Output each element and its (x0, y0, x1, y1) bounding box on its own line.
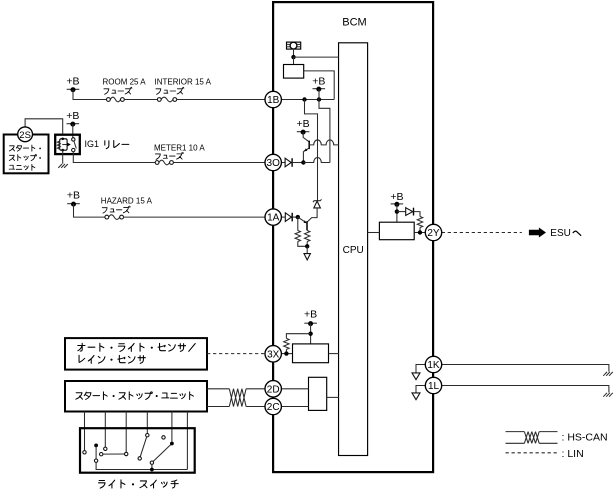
wire w2 (104, 412, 106, 448)
switch S1 lever (closed) (95, 447, 97, 459)
wire driver box to terminal 2Y (414, 232, 425, 234)
driver box (sounder) (284, 65, 304, 79)
wire fuse HAZARD to terminal 1A (124, 216, 266, 218)
wire junction to driver box (293, 57, 295, 64)
resistor R1 (1A pull-down) (297, 217, 299, 230)
wire w5 (171, 412, 173, 442)
svg-text:CPU: CPU (343, 245, 364, 256)
node junction (2Y +B net) (395, 209, 399, 213)
off-page triangle (1A sense) (304, 254, 310, 260)
interface box (3X) (293, 344, 329, 363)
svg-text:METER1 10 A: METER1 10 A (154, 144, 205, 153)
node pivot (switch S4) (170, 442, 174, 446)
svg-text:INTERIOR 15 A: INTERIOR 15 A (155, 78, 212, 87)
contact (S1) (94, 459, 97, 462)
node junction (resistor join) (305, 244, 309, 248)
switch S3 lever (140, 437, 147, 457)
diode D4 (2Y pull-up) (397, 208, 420, 217)
diode D2 (1A input) (281, 213, 297, 222)
wire relay coil to ground (62, 150, 64, 164)
HS-CAN wire 2C (start-stop to BCM) (207, 406, 229, 408)
wire +B to driver box top (396, 204, 398, 222)
shield ground (1L) (603, 393, 613, 397)
wire +B to junction (310, 323, 312, 344)
svg-text:: LIN: : LIN (562, 448, 584, 460)
node junction A (1B net) (302, 97, 306, 101)
node junction (common rail) (150, 468, 154, 472)
start-stop unit text (76, 392, 194, 400)
wire interface box to CPU (329, 353, 339, 355)
start-stop unit box (left) (4, 135, 49, 174)
wire terminal 1B to corner (281, 99, 334, 101)
fuse ROOM 25 A (110, 97, 120, 102)
auto light sensor box (65, 338, 207, 370)
contact (w2 end) (104, 447, 107, 450)
wire 1L to CAN bus right (442, 386, 609, 393)
contact (w1 end) (83, 451, 86, 454)
terminal 3O (265, 154, 281, 170)
transistor Q1 (303, 132, 309, 163)
node pivot (switch S1) (94, 444, 98, 448)
off-page triangle (1K) (412, 373, 420, 380)
twisted pair symbol (HS-CAN) (229, 389, 246, 407)
wire w4 (146, 412, 148, 434)
wire 1K stub to off-page (416, 365, 425, 373)
transistor Q2 (298, 217, 307, 230)
wire fuse METER1 to terminal 3O (173, 162, 265, 164)
wire w3 (125, 412, 127, 453)
svg-text:HAZARD 15 A: HAZARD 15 A (101, 197, 153, 206)
node junction (2Y net) (418, 230, 422, 234)
start-stop unit text (9, 145, 41, 151)
sounder icon (inside BCM top) (287, 42, 301, 49)
node junction (3X net) (284, 351, 288, 355)
contact (w3 end) (125, 452, 128, 455)
wire fuse ROOM to fuse INTERIOR (124, 99, 157, 101)
svg-text:2C: 2C (267, 402, 280, 413)
off-page arrow to ESU (529, 228, 546, 238)
wire CAN box to CPU (327, 396, 339, 398)
svg-text:1K: 1K (427, 360, 440, 371)
wire driver box to 1B net (304, 71, 335, 100)
svg-text:+B: +B (297, 118, 310, 130)
svg-text:ROOM 25 A: ROOM 25 A (103, 78, 147, 87)
wire +B to relay contact (72, 124, 74, 138)
contact (spare) (162, 436, 165, 439)
wire junction B down to 3O net (319, 100, 330, 163)
wire junction A down to zener (305, 100, 318, 201)
wire +B to fuse HAZARD (74, 204, 105, 217)
legend LIN symbol (506, 452, 558, 454)
svg-text:2S: 2S (19, 130, 31, 141)
wire S1 to common rail (96, 463, 187, 470)
svg-text:ESU: ESU (550, 228, 571, 239)
svg-text:+B: +B (66, 110, 79, 122)
svg-text:3X: 3X (267, 349, 280, 360)
contact (S2 left) (100, 453, 103, 456)
terminal 2S (18, 127, 33, 142)
wire 2C to CAN box (281, 406, 308, 408)
node junction (sounder net) (291, 55, 295, 59)
resistor R2 (Q2 emitter) (306, 229, 308, 231)
terminal 1A (265, 209, 281, 225)
contact (w4 end / S3 pivot) (146, 434, 149, 437)
wire CPU to driver box (368, 232, 380, 234)
terminal 2D (265, 381, 281, 397)
terminal 1B (265, 91, 281, 107)
fuse METER1 10 A (159, 160, 170, 165)
wire twist to terminal 2D (246, 388, 265, 390)
wire sounder to junction (293, 49, 295, 57)
driver box (2Y output) (379, 222, 414, 240)
wire junction to off-page arrow (306, 246, 308, 253)
relay IG1 box (55, 135, 80, 154)
node junction (3X +B) (308, 332, 312, 336)
svg-text:+B: +B (67, 190, 80, 202)
svg-text:2Y: 2Y (427, 228, 440, 239)
zener diode D3 (307, 199, 321, 222)
node junction (1A net) (296, 215, 300, 219)
terminal 2Y (425, 224, 441, 240)
auto light sensor text line2 (79, 355, 145, 363)
svg-text:+B: +B (312, 76, 325, 88)
svg-text:IG1: IG1 (85, 139, 100, 149)
relay IG1 contact switch (72, 138, 77, 152)
svg-text:BCM: BCM (342, 17, 366, 29)
svg-text:1A: 1A (267, 213, 280, 224)
svg-text:1L: 1L (428, 381, 440, 392)
BCM module box (273, 2, 433, 472)
wire 2D to CAN box (281, 388, 308, 390)
HS-CAN wire 2D (start-stop to BCM) (207, 388, 229, 390)
wire +B to fuse ROOM 25A (73, 90, 107, 100)
svg-text:: HS-CAN: : HS-CAN (562, 432, 608, 444)
terminal 1K (425, 356, 441, 372)
wire terminal 3X to interface box (281, 353, 292, 355)
svg-text:3O: 3O (267, 158, 281, 169)
svg-text:+B: +B (304, 309, 317, 321)
node junction (3O net / Q1 collector) (301, 160, 305, 164)
wire relay contact to fuse METER1 (73, 152, 155, 163)
node junction B (1B net) (317, 97, 321, 101)
svg-text:+B: +B (66, 75, 79, 87)
LIN wire (dashed) sensor to 3X (207, 353, 265, 355)
wire 2S to IG1 relay coil (25, 119, 63, 135)
diode D1 (3O input) (281, 158, 303, 167)
wire Q1 base to CPU (hops over two wires) (309, 140, 339, 145)
fuse HAZARD 15 A (109, 215, 120, 220)
wire w1 start-stop to light switch (84, 412, 86, 451)
switch S4 lever (153, 445, 170, 462)
fuse INTERIOR 15 A (161, 97, 173, 102)
contact (S3) (138, 457, 141, 460)
wire junction to resistor R4 (286, 334, 310, 339)
CAN interface box (inside BCM) (309, 377, 327, 410)
label light switch (99, 480, 179, 488)
light switch box (80, 428, 195, 473)
wire S4 contact to rail (151, 464, 153, 469)
wire +B to 1B net (318, 89, 320, 100)
terminal 1L (425, 377, 441, 393)
start-stop unit box (65, 381, 207, 412)
off-page triangle (1L) (412, 393, 420, 400)
resistor R4 (3X pull-up) (284, 338, 289, 349)
wire w6 (to common rail) (186, 412, 188, 470)
CPU block U1 (339, 43, 368, 456)
wire fuse INTERIOR to terminal 1B (177, 99, 265, 101)
shield ground (1K) (603, 372, 613, 376)
auto light sensor text line1 (78, 343, 195, 351)
terminal 3X (265, 346, 281, 362)
legend HS-CAN symbol (506, 432, 558, 444)
svg-text:1B: 1B (267, 95, 280, 106)
resistor R3 (2Y pull-up) (417, 217, 422, 228)
svg-text:2D: 2D (267, 384, 280, 395)
ground (IG1 relay coil) (58, 164, 68, 168)
contact (S4) (150, 461, 153, 464)
svg-text:+B: +B (390, 191, 403, 203)
LIN wire (dashed) 2Y to ESU (442, 232, 522, 234)
wire twist to terminal 2C (246, 406, 265, 408)
relay IG1 coil (57, 138, 70, 152)
wire S2 contact link (103, 453, 124, 455)
wire 3O net to junction B riser (hops over zener wire) (303, 158, 330, 163)
wire 1L stub to off-page (416, 386, 425, 393)
wire junction to CPU (294, 56, 339, 58)
terminal 2C (265, 398, 281, 414)
wire 1K to CAN bus right (442, 365, 609, 372)
